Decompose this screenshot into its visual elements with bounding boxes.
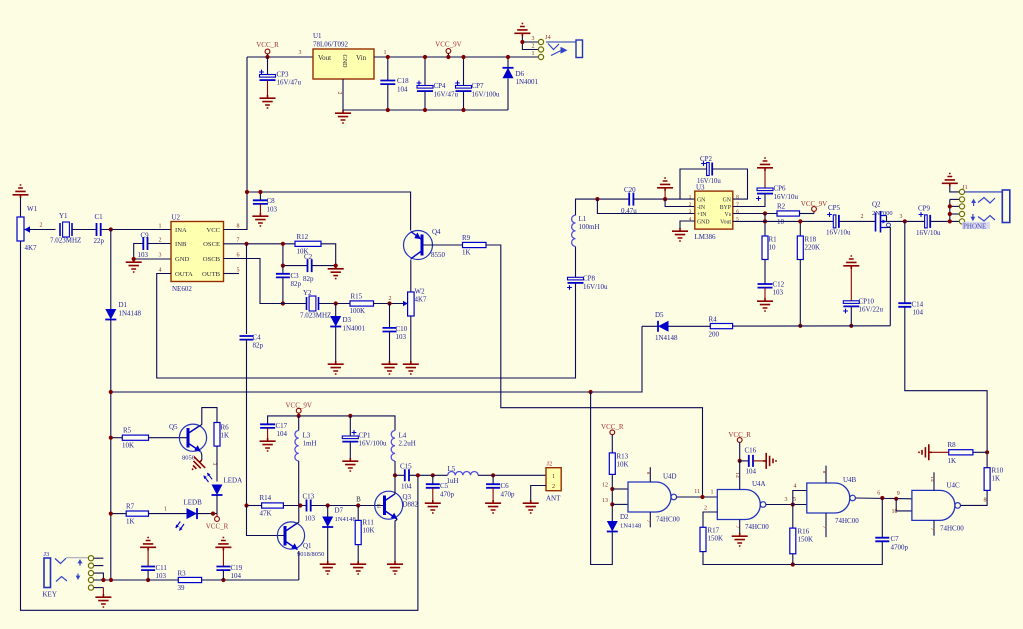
svg-text:J2: J2: [547, 461, 553, 468]
svg-text:470p: 470p: [440, 491, 455, 499]
wire U2 VCC pin8 up to rail: [224, 192, 248, 230]
svg-text:OSCE: OSCE: [203, 241, 220, 248]
wire audio bus: [111, 326, 642, 392]
svg-text:10: 10: [777, 218, 785, 226]
svg-text:C1: C1: [95, 213, 104, 221]
svg-text:U1: U1: [313, 32, 322, 40]
wire L1 top to C20: [576, 199, 630, 215]
svg-text:L3: L3: [303, 432, 311, 440]
ground (CP1): [342, 458, 358, 471]
svg-text:11: 11: [694, 489, 700, 495]
svg-text:1N4148: 1N4148: [119, 310, 142, 318]
svg-text:2: 2: [861, 214, 864, 220]
power port VCC_9V (amp): [800, 213, 815, 215]
svg-text:C7: C7: [891, 535, 900, 543]
capacitor C13 103: [307, 500, 311, 512]
svg-text:16V/47u: 16V/47u: [434, 91, 459, 99]
svg-text:L5: L5: [448, 465, 456, 473]
diode D6 1N4001: [507, 57, 509, 68]
wire Y2 to R15: [319, 303, 350, 305]
diode D7 1N4148: [327, 506, 329, 517]
svg-text:U2: U2: [172, 214, 181, 222]
svg-text:2: 2: [389, 296, 392, 302]
svg-text:8: 8: [237, 224, 240, 230]
capacitor CP7: [463, 57, 465, 85]
wire W1 wiper to Y1: [28, 229, 56, 231]
ground (J2): [523, 500, 539, 513]
svg-text:Vin: Vin: [356, 54, 367, 62]
capacitor C18: [387, 57, 389, 80]
svg-text:D1: D1: [119, 301, 128, 309]
svg-text:9: 9: [897, 491, 900, 497]
resistor R2 10: [777, 211, 800, 216]
wire R6 to LEDA: [216, 446, 218, 481]
capacitor C16 104: [740, 460, 749, 462]
transistor Q1 9018/8050: [277, 522, 304, 549]
svg-text:3: 3: [159, 253, 162, 259]
svg-text:R10: R10: [992, 467, 1004, 475]
svg-text:8050: 8050: [182, 455, 195, 462]
ground (J3): [95, 594, 111, 607]
svg-text:CP1: CP1: [359, 432, 372, 440]
wire C14 to R8 node: [905, 307, 987, 453]
wire D2 to bus: [591, 392, 613, 565]
NAND gate U4C 74HC00: [912, 490, 955, 520]
svg-text:16V/10u: 16V/10u: [826, 229, 851, 237]
svg-text:VCC_9V: VCC_9V: [801, 200, 827, 208]
NAND gate U4D 74HC00: [628, 482, 671, 512]
wire U4B output to U4C: [855, 497, 912, 500]
svg-text:104: 104: [231, 572, 242, 580]
wire U4C output to R10: [961, 490, 988, 505]
capacitor C12 103: [764, 260, 766, 284]
wire C20 to U3 pins 1,2: [633, 198, 694, 200]
svg-text:470p: 470p: [501, 491, 516, 499]
svg-text:200: 200: [709, 331, 720, 339]
capacitor C4 82p: [240, 336, 254, 340]
capacitor CP1 16V/100u: [349, 416, 351, 436]
wire W2 bottom to ground: [410, 316, 412, 361]
diode D5 1N4148: [658, 321, 669, 332]
svg-text:GND: GND: [175, 256, 190, 263]
svg-text:8: 8: [984, 498, 987, 504]
svg-text:1mH: 1mH: [303, 440, 317, 448]
svg-text:1uH: 1uH: [447, 477, 459, 485]
wire CP5 to Q2 gate: [839, 220, 876, 222]
ground (C19, above): [215, 538, 231, 551]
svg-text:1K: 1K: [126, 518, 135, 526]
svg-text:22p: 22p: [94, 237, 105, 245]
wire R9 to NAND section: [486, 245, 703, 497]
wire ground rail under supply caps: [343, 109, 508, 111]
svg-text:C19: C19: [231, 564, 243, 572]
capacitor C1 22p: [97, 223, 101, 236]
NAND gate U4B 74HC00: [807, 483, 850, 513]
svg-text:8: 8: [645, 472, 651, 475]
wire U4A pin2 to R17: [703, 512, 717, 527]
svg-text:16V/10u: 16V/10u: [583, 283, 608, 291]
wire R15 to W2 wiper: [374, 303, 405, 305]
svg-text:CP10: CP10: [859, 298, 875, 306]
svg-text:4700p: 4700p: [891, 544, 909, 552]
svg-text:10K: 10K: [617, 461, 629, 469]
svg-text:7: 7: [237, 238, 240, 244]
LED LEDA: [212, 485, 223, 496]
wire W1 top: [20, 198, 22, 217]
resistor R4 200: [710, 324, 732, 329]
svg-text:1K: 1K: [462, 249, 471, 257]
svg-text:C9: C9: [141, 232, 150, 240]
label PHONE: [962, 222, 990, 229]
svg-text:INA: INA: [175, 227, 187, 234]
svg-text:D6: D6: [516, 70, 525, 78]
ground (J1): [942, 174, 958, 187]
wire C15 to L5: [409, 474, 448, 476]
svg-text:7: 7: [929, 528, 935, 531]
svg-text:7: 7: [645, 520, 651, 523]
svg-text:4K7: 4K7: [415, 296, 428, 304]
svg-text:E: E: [377, 504, 381, 510]
wire U2 OUTA to CP8: [157, 274, 576, 379]
svg-text:7.023MHZ: 7.023MHZ: [50, 237, 81, 245]
svg-text:OUTB: OUTB: [202, 271, 221, 278]
svg-text:104: 104: [913, 309, 924, 317]
capacitor CP6 16V/10u: [757, 158, 773, 171]
svg-text:74HC00: 74HC00: [656, 516, 680, 524]
svg-text:Q1: Q1: [303, 542, 312, 550]
svg-text:2: 2: [159, 238, 162, 244]
svg-text:0.47u: 0.47u: [621, 207, 637, 215]
svg-text:BYP: BYP: [720, 205, 731, 211]
svg-text:VCC_R: VCC_R: [601, 423, 624, 431]
svg-text:4: 4: [689, 217, 692, 223]
svg-text:C8: C8: [267, 197, 276, 205]
wire U1 GND down: [342, 79, 344, 110]
svg-text:82p: 82p: [291, 280, 302, 288]
svg-text:16V/100u: 16V/100u: [359, 440, 388, 448]
power port VCC_R (LED): [216, 514, 218, 517]
wire LEDB to VCC_R port: [197, 513, 217, 515]
svg-text:C12: C12: [773, 281, 785, 289]
power port VCC_R (C16): [737, 438, 742, 443]
connector J2 ANT: [546, 468, 561, 491]
svg-text:150K: 150K: [708, 535, 724, 543]
capacitor C7 4700p: [881, 498, 883, 538]
svg-text:1K: 1K: [992, 475, 1001, 483]
resistor R6 1K: [214, 423, 220, 447]
svg-text:D882: D882: [403, 501, 419, 509]
svg-text:+IN: +IN: [697, 212, 707, 218]
capacitor C11 103: [147, 551, 149, 567]
potentiometer W1 4K7: [17, 217, 24, 241]
svg-text:LEDB: LEDB: [184, 499, 203, 507]
svg-text:2: 2: [532, 44, 535, 50]
svg-text:1: 1: [532, 51, 535, 57]
svg-text:R2: R2: [777, 203, 786, 211]
ground (C16, rotated): [753, 460, 763, 462]
svg-text:103: 103: [396, 333, 407, 341]
power port VCC_R (R13): [610, 430, 615, 435]
svg-text:VCC_R: VCC_R: [206, 523, 229, 531]
svg-text:R7: R7: [126, 503, 135, 511]
svg-text:104: 104: [401, 483, 412, 491]
wire C1 to U2 INA: [101, 229, 171, 231]
svg-text:8550: 8550: [431, 251, 446, 259]
svg-text:C20: C20: [624, 186, 636, 194]
svg-text:R16: R16: [798, 528, 810, 536]
svg-text:R12: R12: [297, 233, 309, 241]
svg-text:GND: GND: [697, 219, 710, 225]
svg-text:103: 103: [138, 251, 149, 259]
svg-text:1: 1: [159, 224, 162, 230]
svg-text:2: 2: [552, 483, 555, 490]
svg-text:C6: C6: [501, 482, 510, 490]
svg-text:GN: GN: [697, 197, 706, 203]
jack J1 switch levers: [978, 198, 995, 204]
capacitor C20 0.47u: [629, 193, 633, 206]
wire VCC_9V rail: [268, 416, 395, 431]
wire D5 to R4: [669, 325, 711, 327]
wire Q1 collector to L3 node: [296, 506, 299, 525]
svg-text:INB: INB: [175, 241, 187, 248]
svg-text:C15: C15: [400, 463, 412, 471]
resistor R9 1K: [463, 242, 487, 247]
capacitor C3 82p: [282, 266, 284, 274]
svg-text:C3: C3: [291, 272, 300, 280]
svg-text:Q2: Q2: [872, 201, 881, 209]
wire Q3 emitter to ground: [395, 519, 397, 561]
jack J3 pins: [94, 557, 104, 559]
inductor L1 100mH: [575, 247, 577, 278]
wire W1 bottom to sheet loop: [21, 241, 418, 610]
resistor R12 10K: [295, 241, 321, 246]
svg-text:GND: GND: [341, 55, 347, 69]
ground (C10): [382, 361, 398, 374]
U4C power stubs: [933, 472, 935, 490]
wire R7 to LEDB: [149, 513, 187, 515]
wire VCC_R rail to U1 Vout: [247, 56, 313, 58]
svg-text:16V/22u: 16V/22u: [859, 306, 884, 314]
transistor Q4 8550: [404, 231, 433, 260]
svg-text:13: 13: [602, 498, 608, 504]
svg-text:104: 104: [397, 86, 408, 94]
wire R14 to C13: [283, 505, 306, 507]
svg-text:R17: R17: [708, 527, 720, 535]
svg-text:10: 10: [892, 509, 898, 515]
svg-text:1N4001: 1N4001: [343, 325, 366, 333]
svg-text:1: 1: [552, 473, 555, 480]
svg-text:9018/8050: 9018/8050: [297, 551, 324, 558]
wire CP9 to J1: [930, 220, 959, 222]
jack J4 body: [576, 40, 583, 58]
svg-text:1K: 1K: [948, 457, 957, 465]
ground (U1 GND): [335, 110, 351, 123]
svg-text:1K: 1K: [221, 432, 230, 440]
wire audio line (D5/R4 row): [642, 325, 658, 327]
svg-text:3: 3: [689, 209, 692, 215]
ground (CP10): [843, 256, 859, 269]
jack J3 switch levers: [55, 558, 66, 563]
resistor R10 1K: [984, 468, 990, 491]
ground (CP3): [260, 95, 276, 108]
svg-text:1: 1: [689, 195, 692, 201]
resistor R8 1K: [949, 451, 987, 453]
svg-text:4: 4: [159, 268, 162, 274]
ground (C17): [260, 438, 276, 451]
resistor R18 220K: [799, 221, 801, 236]
svg-text:GN: GN: [723, 197, 732, 203]
svg-text:C10: C10: [396, 325, 408, 333]
svg-text:7: 7: [736, 202, 739, 208]
ground (W1 top): [13, 185, 29, 198]
svg-text:VCC_R: VCC_R: [256, 41, 279, 49]
ground (D3): [328, 361, 344, 374]
svg-text:Vs: Vs: [725, 212, 732, 218]
U4B power stubs: [825, 466, 827, 483]
svg-text:14: 14: [734, 472, 740, 478]
resistor R7 1K: [111, 513, 126, 515]
svg-text:2: 2: [336, 92, 342, 95]
svg-text:78L06/T092: 78L06/T092: [313, 41, 348, 49]
resistor R13 10K: [609, 453, 615, 475]
svg-text:VCC: VCC: [206, 227, 220, 234]
svg-text:14: 14: [929, 476, 935, 482]
svg-text:10K: 10K: [122, 442, 134, 450]
svg-text:CP5: CP5: [828, 204, 841, 212]
U4D power stubs: [649, 467, 651, 482]
wire U3 Vout pin5 to CP5: [733, 220, 834, 222]
svg-text:CP4: CP4: [434, 82, 447, 90]
wire U3 Vs pin6 to R2: [733, 213, 777, 215]
svg-text:NE602: NE602: [172, 285, 192, 293]
capacitor C8 103: [259, 192, 261, 200]
svg-text:CP6: CP6: [774, 185, 787, 193]
svg-text:7: 7: [734, 526, 740, 529]
wire R13 to U4D inputs: [611, 474, 613, 521]
resistor R15 100K: [350, 301, 374, 306]
svg-text:100K: 100K: [350, 307, 366, 315]
capacitor CP9 16V/10u: [925, 215, 928, 228]
wire U4B pin4 tie: [793, 491, 807, 505]
svg-text:1N4001: 1N4001: [516, 78, 539, 86]
svg-text:47K: 47K: [260, 510, 272, 518]
svg-text:PHONE: PHONE: [963, 223, 986, 231]
svg-text:CP9: CP9: [918, 205, 931, 213]
svg-text:16V/47u: 16V/47u: [277, 79, 302, 87]
svg-text:16V/10u: 16V/10u: [916, 229, 941, 237]
svg-text:VCC_9V: VCC_9V: [435, 41, 461, 49]
svg-text:16V/100u: 16V/100u: [472, 91, 501, 99]
wire R12 right to C2 right: [321, 244, 336, 266]
wire Q4 base to R9: [424, 244, 463, 246]
wire U2 OUTB pin5 stub: [224, 273, 240, 275]
ground (C12): [757, 298, 773, 311]
svg-text:82p: 82p: [303, 275, 314, 283]
wire Q5 emitter to ground: [200, 452, 203, 460]
wire R18 bottom to audio line: [799, 260, 801, 326]
svg-text:VCC_R: VCC_R: [728, 431, 751, 439]
wire CP6 to U3 BYP pin7: [733, 194, 765, 207]
svg-text:3: 3: [900, 214, 903, 220]
svg-text:1N4148: 1N4148: [620, 523, 642, 530]
wire Q5 collector to R6: [199, 408, 218, 427]
U4A ground stub: [739, 520, 741, 534]
potentiometer W2 4K7: [404, 303, 408, 305]
svg-text:Q5: Q5: [169, 423, 178, 431]
svg-text:2: 2: [40, 223, 43, 229]
svg-text:R13: R13: [617, 453, 629, 461]
svg-text:1: 1: [711, 490, 714, 496]
capacitor C17 104: [260, 424, 275, 428]
svg-text:2N7000: 2N7000: [872, 210, 893, 217]
wire R1 column: [764, 214, 766, 237]
svg-text:R14: R14: [260, 494, 272, 502]
svg-text:8: 8: [821, 471, 827, 474]
svg-text:10K: 10K: [363, 527, 375, 535]
resistor R5 10K: [111, 437, 123, 439]
svg-text:R18: R18: [805, 236, 817, 244]
LED LEDB: [187, 508, 198, 519]
wire U4A output to U4B inputs: [766, 504, 807, 506]
resistor R1 10: [762, 236, 768, 260]
svg-text:R1: R1: [769, 236, 778, 244]
transistor Q5 8050: [179, 424, 206, 451]
svg-text:1: 1: [164, 507, 167, 513]
wire R12 left branch down: [282, 244, 284, 266]
svg-text:C18: C18: [397, 77, 409, 85]
svg-text:R11: R11: [363, 519, 375, 527]
svg-text:12: 12: [602, 483, 608, 489]
svg-text:6: 6: [736, 209, 739, 215]
svg-text:3: 3: [532, 36, 535, 42]
capacitor C5 470p: [432, 475, 434, 484]
wire U4C pin10 tie: [896, 499, 912, 511]
wire R5 to Q5 base: [149, 437, 188, 439]
svg-text:39: 39: [178, 584, 186, 592]
svg-text:Vout: Vout: [720, 219, 731, 225]
svg-text:VCC_9V: VCC_9V: [285, 402, 311, 410]
voltage regulator U1 78L06/T092: [313, 49, 374, 79]
ground (D7): [320, 561, 336, 574]
svg-text:104: 104: [277, 430, 288, 438]
wire U2 OSCE pin7: [224, 243, 296, 245]
wire L5 to J2: [478, 474, 546, 476]
svg-text:D3: D3: [343, 316, 352, 324]
svg-text:2.2uH: 2.2uH: [399, 440, 416, 448]
capacitor CP2 16V/10u (pins 1-8): [680, 169, 707, 199]
svg-text:OUTA: OUTA: [175, 271, 193, 278]
svg-text:C11: C11: [156, 564, 168, 572]
svg-text:8: 8: [736, 195, 739, 201]
svg-text:82p: 82p: [253, 342, 264, 350]
wire W2 top to Q4 emitter: [410, 260, 412, 293]
ground (C5): [425, 500, 441, 513]
svg-text:U4D: U4D: [663, 473, 677, 481]
capacitor CP3: [267, 57, 269, 74]
wire U4D output to U4A input: [677, 496, 718, 498]
svg-text:CP8: CP8: [583, 275, 596, 283]
svg-text:Q4: Q4: [432, 228, 441, 236]
diode D3 1N4001: [335, 304, 337, 317]
svg-text:6: 6: [877, 491, 880, 497]
svg-text:R4: R4: [709, 316, 718, 324]
wire R10 to R8: [986, 452, 988, 467]
svg-text:C13: C13: [303, 493, 315, 501]
wire U4D input stubs: [612, 488, 628, 490]
svg-text:4K7: 4K7: [25, 244, 38, 252]
ground (R8, rotated): [932, 451, 949, 453]
diode D1 1N4148: [110, 230, 112, 310]
